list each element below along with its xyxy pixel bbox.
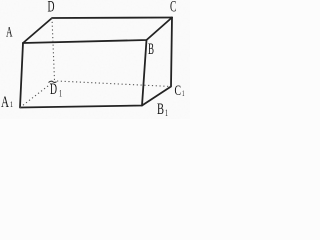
svg-text:A: A	[1, 94, 10, 111]
svg-text:1: 1	[59, 89, 62, 99]
svg-text:C: C	[175, 83, 182, 99]
svg-text:1: 1	[10, 99, 13, 109]
svg-text:B: B	[157, 101, 164, 118]
svg-text:D: D	[48, 0, 55, 16]
svg-text:D: D	[50, 81, 57, 98]
svg-text:B: B	[148, 41, 154, 58]
svg-text:1: 1	[182, 88, 185, 98]
svg-text:1: 1	[165, 108, 168, 118]
svg-text:A: A	[6, 25, 13, 41]
svg-text:C: C	[170, 0, 176, 16]
